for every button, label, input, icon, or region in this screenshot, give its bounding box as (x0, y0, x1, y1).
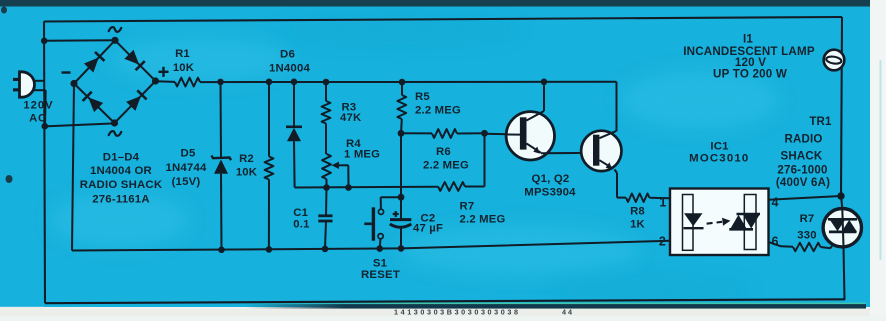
svg-text:6: 6 (772, 235, 779, 249)
svg-text:D6: D6 (280, 49, 295, 61)
svg-text:R5: R5 (415, 91, 430, 103)
svg-text:R2: R2 (239, 153, 254, 165)
svg-text:4: 4 (772, 196, 779, 210)
svg-text:1N4004 OR: 1N4004 OR (90, 165, 152, 177)
svg-text:S1: S1 (373, 258, 388, 270)
svg-text:UP TO 200 W: UP TO 200 W (713, 68, 787, 81)
svg-text:Q1, Q2: Q1, Q2 (532, 173, 570, 185)
svg-text:RADIO: RADIO (784, 133, 822, 145)
svg-text:D5: D5 (181, 148, 196, 160)
svg-text:2.2 MEG: 2.2 MEG (423, 160, 469, 172)
svg-text:0.1: 0.1 (293, 219, 309, 231)
svg-text:R7: R7 (460, 201, 475, 213)
svg-text:R8: R8 (630, 206, 645, 218)
svg-text:1N4004: 1N4004 (269, 63, 311, 75)
svg-text:I1: I1 (743, 33, 753, 46)
svg-text:10K: 10K (236, 167, 258, 179)
svg-text:MOC3010: MOC3010 (689, 153, 749, 165)
svg-text:R7: R7 (800, 213, 815, 225)
svg-text:2.2 MEG: 2.2 MEG (460, 214, 506, 226)
svg-text:1 MEG: 1 MEG (344, 149, 380, 161)
svg-text:RESET: RESET (361, 269, 400, 281)
svg-text:47 µF: 47 µF (413, 223, 443, 235)
svg-text:2: 2 (659, 235, 666, 249)
svg-text:276-1161A: 276-1161A (92, 194, 150, 206)
svg-text:1K: 1K (630, 219, 645, 231)
svg-text:14130303B3030303038: 14130303B3030303038 (394, 308, 521, 316)
svg-text:120V: 120V (23, 100, 53, 112)
svg-text:2.2 MEG: 2.2 MEG (415, 105, 461, 117)
svg-text:IC1: IC1 (710, 141, 729, 153)
svg-text:MPS3904: MPS3904 (524, 187, 576, 199)
svg-text:TR1: TR1 (809, 116, 832, 128)
svg-text:AC: AC (29, 113, 47, 125)
svg-text:1: 1 (659, 196, 666, 210)
svg-text:D1–D4: D1–D4 (103, 152, 140, 164)
svg-text:(15V): (15V) (172, 176, 201, 188)
svg-text:R1: R1 (175, 48, 190, 60)
svg-text:(400V 6A): (400V 6A) (776, 177, 830, 189)
svg-text:RADIO SHACK: RADIO SHACK (80, 179, 163, 191)
svg-text:276-1000: 276-1000 (777, 165, 827, 177)
svg-text:330: 330 (797, 230, 816, 242)
svg-text:SHACK: SHACK (781, 150, 823, 162)
svg-text:47K: 47K (340, 112, 362, 124)
svg-text:R6: R6 (436, 146, 451, 158)
svg-text:C1: C1 (293, 207, 308, 219)
svg-text:10K: 10K (173, 62, 195, 74)
svg-text:1N4744: 1N4744 (165, 162, 207, 174)
svg-text:44: 44 (562, 308, 574, 316)
